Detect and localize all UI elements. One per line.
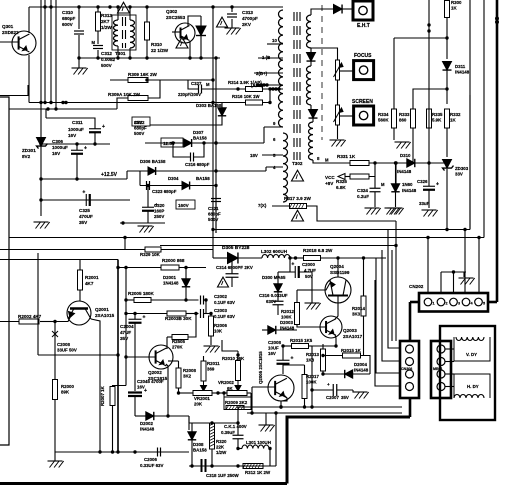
wire y361 link	[168, 360, 179, 362]
capacitor C313	[227, 10, 258, 27]
junction dots q2005 area	[281, 344, 337, 391]
svg-text:C312: C312	[101, 51, 112, 56]
ground C2006 row	[0, 0, 1, 1]
transistor Q2001	[67, 301, 115, 325]
wire CN202 pin1 up	[427, 238, 429, 294]
wire Q2005 base	[252, 386, 275, 388]
svg-text:T301: T301	[115, 51, 126, 56]
junction dots x126	[124, 266, 127, 359]
svg-text:+: +	[82, 190, 85, 196]
svg-text:R2015 1K: R2015 1K	[341, 348, 362, 353]
junction dot bracket	[452, 270, 455, 273]
svg-text:R317 3.9 2W: R317 3.9 2W	[284, 196, 311, 201]
wire L301 left	[238, 448, 242, 450]
svg-text:680pF: 680pF	[208, 212, 221, 217]
svg-text:16V: 16V	[268, 351, 276, 356]
junction dots divider	[194, 298, 212, 315]
resistor R314	[228, 80, 263, 92]
svg-text:100K: 100K	[281, 315, 292, 320]
resistor R334	[378, 109, 397, 128]
diode D309	[391, 182, 416, 193]
wire ZD301	[40, 137, 42, 147]
wire D308 bottom	[191, 441, 193, 467]
warning triangle C314	[218, 277, 229, 287]
svg-text:M: M	[206, 82, 210, 87]
svg-text:VCC: VCC	[325, 175, 335, 180]
wire VR row	[179, 392, 194, 394]
flyback dashed divider	[321, 5, 323, 140]
wire R334 bottom	[393, 128, 395, 140]
resistor R331	[325, 154, 369, 166]
diode D300 MA65	[262, 275, 286, 292]
wire D308 top	[189, 423, 192, 432]
wire y223 stub	[120, 222, 165, 224]
wire gnd stem	[54, 452, 56, 461]
wire x236 col	[237, 406, 239, 408]
svg-text:R2001: R2001	[85, 275, 99, 280]
resistor R2014	[352, 296, 366, 317]
wire D2004 row	[323, 373, 345, 375]
wire pin2 stub	[254, 72, 283, 74]
label pin 9	[273, 121, 276, 126]
inductor L302	[261, 249, 290, 258]
svg-text:R2012: R2012	[281, 309, 294, 314]
wire R2007 bottom	[112, 406, 114, 453]
wire C2000 right	[299, 272, 312, 290]
svg-text:100K: 100K	[306, 380, 317, 385]
wire Q2003 base	[308, 326, 327, 328]
wire D304 drop	[139, 171, 141, 186]
label 160V box	[176, 200, 195, 209]
svg-text:IN4148: IN4148	[354, 368, 369, 373]
wire C327 left	[188, 80, 199, 89]
ground under R2006	[204, 346, 220, 353]
wire C2002 right	[204, 300, 207, 314]
svg-text:680pF: 680pF	[134, 126, 147, 131]
svg-text:SCREEN: SCREEN	[352, 99, 373, 105]
svg-text:C2002: C2002	[214, 294, 227, 299]
capacitor C321	[208, 199, 221, 223]
label pin 7	[258, 203, 267, 208]
capacitor C324	[357, 182, 385, 199]
wire Q2001 emitter out	[91, 319, 100, 452]
pot arrow VR2002	[235, 381, 241, 392]
svg-text:Q301: Q301	[2, 24, 14, 29]
wire gnd bracket	[441, 271, 466, 273]
horizontal yoke H.DY	[454, 374, 490, 398]
resistor R2008	[176, 368, 196, 388]
wire C316b bottom	[277, 305, 279, 315]
wire D2003 left	[262, 329, 268, 331]
svg-text:D308: D308	[193, 442, 204, 447]
svg-text:0.1UF 63V: 0.1UF 63V	[214, 300, 235, 305]
svg-text:2: 2	[446, 302, 448, 306]
wire MB01 pin1	[445, 348, 454, 350]
wire R2003B row	[126, 313, 167, 315]
svg-text:3K3: 3K3	[352, 312, 361, 317]
resistor R2000	[53, 380, 75, 400]
capacitor C316	[185, 153, 210, 168]
wire pin5 drop	[478, 238, 480, 294]
wire D2004 right	[353, 373, 371, 375]
wire CN202 thick right	[488, 301, 497, 304]
svg-text:C314 6800PF 2KV: C314 6800PF 2KV	[216, 265, 253, 270]
transformer T302 secondary mid	[307, 66, 312, 105]
wire R320 top	[211, 422, 213, 424]
svg-text:C321: C321	[208, 206, 219, 211]
svg-text:470UF: 470UF	[79, 214, 93, 219]
svg-text:1N60: 1N60	[402, 182, 413, 187]
resistor R317	[284, 196, 311, 209]
wire R2015a left	[283, 345, 292, 347]
wire band y237	[9, 237, 484, 239]
junction dots y413	[250, 411, 277, 414]
wire C2045 bottom	[134, 396, 136, 416]
svg-text:D300 MA65: D300 MA65	[262, 275, 286, 280]
wire y346 link	[312, 345, 336, 347]
resistor R2011	[201, 361, 220, 381]
wire D2002 left	[135, 415, 146, 417]
wire C2007 left	[312, 389, 333, 391]
svg-text:33V: 33V	[455, 172, 463, 177]
ground CN202	[459, 278, 475, 285]
resistor R325	[336, 174, 369, 190]
svg-text:VR2002: VR2002	[218, 380, 234, 385]
wire R2002 left	[0, 321, 19, 323]
wire R2005 row	[126, 299, 134, 301]
wire rail y171	[126, 171, 128, 179]
wire y413 row	[247, 412, 402, 414]
terminal FOCUS	[354, 53, 374, 80]
svg-text:500V: 500V	[134, 131, 144, 136]
wire C314 top	[231, 258, 233, 274]
warning triangle R317 upper	[292, 170, 304, 181]
svg-text:1/2W: 1/2W	[101, 25, 112, 30]
svg-text:R2017: R2017	[306, 374, 319, 379]
capacitor C2002	[201, 294, 236, 305]
junction dot R2010	[236, 353, 239, 356]
wire VR loop right	[250, 393, 252, 397]
wire D2001 top	[185, 268, 187, 280]
wire CN202 pin2 up	[440, 272, 442, 293]
svg-text:C306: C306	[52, 139, 63, 144]
wire CN202 pin3 up	[453, 272, 455, 293]
wire Q301 collector	[28, 7, 30, 33]
wire C311 bottom	[94, 132, 96, 144]
wire vertical column C	[50, 0, 52, 103]
svg-text:R2006: R2006	[214, 323, 227, 328]
wire D304 row	[140, 185, 182, 187]
junction dots x429	[427, 23, 430, 32]
wire bus y80	[110, 79, 213, 81]
svg-text:1K: 1K	[451, 6, 457, 11]
svg-text:R329 10K: R329 10K	[140, 252, 161, 257]
svg-text:0.0082: 0.0082	[101, 57, 115, 62]
wire y89 link	[413, 89, 447, 109]
svg-text:VR2001: VR2001	[194, 396, 210, 401]
svg-text:2K7: 2K7	[101, 19, 110, 24]
wire D300 link	[278, 271, 290, 273]
wire R2015b left	[323, 355, 343, 357]
potentiometer VR2002	[218, 380, 247, 396]
svg-text:C320: C320	[154, 203, 165, 208]
svg-text:C310: C310	[62, 10, 73, 15]
svg-text:C318 1UF 250W: C318 1UF 250W	[206, 473, 240, 478]
svg-text:R316 10K 1W: R316 10K 1W	[232, 94, 260, 99]
svg-text:1000uF: 1000uF	[68, 127, 84, 132]
resistor R2009 loop	[224, 393, 251, 410]
capacitor CK1	[221, 424, 247, 439]
resistor R309	[128, 72, 158, 83]
diode D305	[222, 245, 250, 264]
svg-text:C324: C324	[357, 188, 368, 193]
wire MB01 pin2	[445, 361, 454, 363]
svg-text:89K: 89K	[61, 390, 70, 395]
svg-text:R309 16K 2W: R309 16K 2W	[128, 72, 158, 77]
wire R2013 bottom	[322, 371, 324, 374]
resistor R2013	[306, 349, 326, 371]
wire C314 bottom	[231, 277, 233, 287]
svg-text:R320: R320	[216, 439, 227, 444]
wire right col x429 top	[428, 0, 430, 109]
wire sec join2	[310, 62, 312, 67]
diode D303	[196, 103, 226, 116]
label 25V box	[132, 117, 150, 126]
wire x382 col	[382, 250, 400, 361]
wire pin4 drop	[464, 230, 466, 294]
resistor R310	[145, 22, 169, 53]
diode D311	[443, 62, 470, 75]
wire Q302 collector	[188, 16, 201, 26]
wire D305 row left	[213, 257, 228, 259]
svg-text:R2000 868: R2000 868	[162, 258, 185, 263]
junction dot C2004	[133, 312, 136, 315]
wire pin1 stub	[258, 57, 283, 59]
wire R2012 top	[296, 290, 298, 303]
svg-text:1: 1	[433, 302, 435, 306]
svg-text:Q302: Q302	[166, 9, 178, 14]
junction dot ZD303	[445, 228, 448, 231]
svg-text:R2009 2K2: R2009 2K2	[225, 400, 248, 405]
zener diode ZD303	[443, 160, 469, 177]
resistor R2003B	[165, 311, 192, 321]
svg-text:D2001: D2001	[163, 275, 176, 280]
svg-text:D304: D304	[168, 176, 179, 181]
wire L301 right drop	[269, 449, 271, 467]
svg-text:8V2: 8V2	[22, 154, 31, 159]
ground y413	[259, 425, 275, 432]
junction dot emitter row	[166, 414, 169, 417]
diode D2001	[163, 275, 190, 287]
wire D307 row	[145, 142, 184, 144]
diode D2004	[345, 362, 369, 378]
ground under C326	[422, 210, 438, 217]
wire R2017 link	[283, 364, 305, 366]
svg-text:18V: 18V	[250, 153, 258, 158]
svg-text:250V: 250V	[154, 214, 164, 219]
junction dot y38	[445, 36, 448, 39]
svg-text:R2000: R2000	[61, 384, 74, 389]
wire vertical column B	[44, 0, 46, 103]
wire R300 bottom	[446, 18, 448, 60]
wire R317 left	[272, 205, 290, 207]
junction dot R2015b	[321, 354, 324, 357]
diode D304	[168, 176, 210, 190]
wire y38 link	[394, 37, 447, 39]
resistor R316	[232, 94, 263, 105]
connector CN308	[400, 341, 419, 398]
wire Q302 base	[172, 31, 181, 33]
wire pot bottom	[337, 125, 339, 139]
wire x375 col	[375, 280, 400, 386]
wire C321	[215, 186, 217, 199]
wire pot join	[337, 80, 339, 105]
wire pin8 row	[313, 160, 350, 163]
resistor R2006	[209, 316, 228, 336]
wire R2001 top	[79, 259, 81, 270]
resistor R2007	[100, 385, 115, 406]
transformer T302 core	[294, 12, 300, 160]
resistor R2012	[281, 303, 300, 325]
wire bus y466	[189, 465, 276, 467]
junction dot Q2005 e	[279, 405, 282, 408]
wire sec join1	[310, 48, 312, 53]
wire x38 column	[37, 253, 39, 355]
junction dots L301	[236, 447, 271, 450]
wire D305 to L302	[239, 257, 263, 259]
capacitor C2003	[201, 308, 236, 319]
label pin 5	[273, 153, 276, 158]
wire Q2001 base link	[55, 318, 70, 322]
svg-text:D2004: D2004	[354, 362, 367, 367]
wire D306 row	[127, 170, 148, 172]
ground under C320	[138, 226, 154, 233]
svg-text:R2003B 30K: R2003B 30K	[165, 316, 192, 321]
wire R2002 right	[40, 321, 55, 323]
resistor R312	[243, 464, 271, 476]
wire R331 right	[369, 162, 447, 164]
ground under C313	[225, 28, 241, 35]
wire R2003B right	[186, 313, 199, 315]
wire screen tap	[340, 115, 354, 117]
wire right col x470	[469, 0, 471, 230]
svg-text:FOCUS: FOCUS	[354, 53, 372, 59]
svg-text:+8V: +8V	[325, 181, 334, 186]
resistor R2005	[128, 291, 154, 303]
wire R2505 right	[188, 314, 196, 338]
nonpolar cap C2008 mark	[52, 331, 77, 353]
svg-text:SSD1199: SSD1199	[330, 270, 350, 275]
svg-text:22 1/2W: 22 1/2W	[151, 48, 169, 53]
wire C320 bottom	[147, 211, 149, 223]
resistor R329	[140, 247, 161, 257]
wire C2004 bottom	[134, 323, 136, 391]
wire R2017 bottom	[304, 399, 306, 408]
wire C306 bottom	[76, 154, 78, 179]
svg-text:4K7: 4K7	[85, 281, 94, 286]
svg-text:3K2: 3K2	[183, 374, 192, 379]
svg-text:C2003: C2003	[214, 308, 227, 313]
capacitor C323	[147, 181, 177, 194]
wire sec join3	[311, 105, 313, 110]
wire D306 right	[156, 170, 266, 172]
wire Q2004 collector	[337, 258, 339, 277]
junction dots rails	[39, 142, 96, 201]
svg-text:1000uF: 1000uF	[52, 145, 68, 150]
wire vertical column D	[55, 0, 57, 109]
svg-text:D303 BA158: D303 BA158	[196, 103, 222, 108]
wire band y249 R329 row	[0, 249, 213, 251]
wire D304 right	[190, 185, 216, 187]
ground under R334	[395, 142, 411, 149]
diode D2002	[140, 412, 155, 432]
label pin 2	[256, 71, 268, 76]
wire col B down	[45, 109, 47, 118]
wire C321 bottom	[215, 202, 217, 233]
svg-text:R300: R300	[451, 0, 462, 5]
warning triangle near C313	[217, 17, 228, 27]
wire R2014 bottom	[363, 316, 365, 356]
label 18V	[250, 153, 258, 158]
resistor R2017	[302, 374, 319, 399]
wire x125 drop	[124, 238, 126, 250]
wire R309A left	[117, 98, 128, 109]
wire R2012 link	[297, 289, 312, 291]
svg-text:C327: C327	[191, 81, 202, 86]
wire focus feed	[311, 48, 338, 60]
svg-text:+: +	[327, 382, 330, 387]
transformer T301	[112, 15, 136, 56]
transistor Q2002	[148, 345, 173, 381]
svg-text:IN4148: IN4148	[455, 70, 470, 75]
ground bottom left	[48, 461, 64, 468]
wire Q2002 emitter	[166, 364, 168, 416]
svg-text:C311: C311	[72, 120, 83, 125]
svg-text:CN308: CN308	[401, 367, 412, 371]
wire Q2003 collector up	[335, 315, 338, 319]
wire pin4 lead	[266, 166, 283, 168]
svg-text:220pF/200V: 220pF/200V	[178, 92, 201, 97]
resistor R2000b 868	[161, 258, 185, 270]
svg-text:R2005 180K: R2005 180K	[128, 291, 154, 296]
svg-text:+: +	[436, 181, 439, 187]
wire R313 top	[97, 7, 99, 12]
diode D306	[140, 159, 166, 175]
capacitor C310	[62, 10, 84, 34]
wire Q2005 base col	[251, 387, 253, 413]
capacitor C2007	[326, 382, 349, 400]
resistor R309A	[108, 92, 148, 101]
svg-text:C2004: C2004	[120, 324, 134, 329]
resistor R2018	[303, 248, 333, 261]
capacitor C316b	[259, 293, 288, 305]
label pin 6	[273, 137, 276, 142]
wire R309A right	[148, 80, 160, 98]
junction dots bus y58	[77, 56, 217, 59]
wire long vertical x216	[215, 58, 217, 233]
wire T301 right top	[129, 7, 131, 20]
transformer T302 primary	[279, 10, 288, 202]
capacitor C327	[178, 81, 210, 97]
svg-text:ZD303: ZD303	[455, 166, 469, 171]
inductor L301	[242, 440, 271, 449]
svg-text:C2008: C2008	[57, 342, 70, 347]
warning triangle under Q302	[176, 37, 188, 48]
transistor Q2004	[325, 264, 351, 303]
svg-text:R333: R333	[399, 112, 410, 117]
wire D302 anode	[200, 16, 202, 26]
svg-text:500V: 500V	[101, 63, 113, 68]
